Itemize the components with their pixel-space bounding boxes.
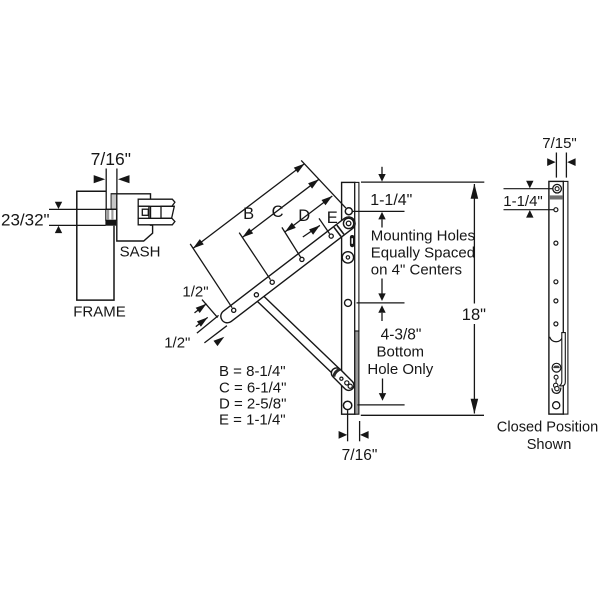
closed mounting holes bbox=[554, 208, 558, 212]
4-3/8 arrow down bbox=[382, 379, 384, 394]
svg-text:on 4" Centers: on 4" Centers bbox=[371, 261, 462, 278]
bottom 7/16 arrow right-pointing bbox=[339, 431, 348, 439]
keeper square hole bbox=[142, 209, 148, 215]
svg-text:D = 2-5/8": D = 2-5/8" bbox=[219, 396, 286, 413]
svg-text:C: C bbox=[272, 203, 284, 221]
keeper wall bbox=[138, 206, 149, 218]
closed top rivet bbox=[553, 184, 562, 193]
track bottom extension line bbox=[361, 414, 484, 416]
shoe rivet mid bbox=[345, 381, 349, 385]
shoe at track bottom bbox=[337, 373, 349, 385]
svg-text:7/15": 7/15" bbox=[542, 135, 577, 152]
svg-text:Bottom: Bottom bbox=[377, 344, 425, 361]
closed shoe cap arc bbox=[552, 388, 561, 394]
7/16 arrow left bbox=[94, 175, 106, 183]
18in dimension line bbox=[473, 184, 475, 304]
23/32 arrow down bbox=[55, 202, 62, 209]
half inch dim 1 extension (arm end) bbox=[202, 300, 218, 318]
dimension E extension line bbox=[319, 218, 330, 233]
closed position flange bbox=[563, 181, 568, 414]
dimension C extension line bbox=[239, 233, 270, 280]
track bottom hole bbox=[343, 401, 351, 409]
dimension B extension line bbox=[190, 244, 232, 308]
top hole extension right bbox=[353, 210, 405, 212]
svg-text:Mounting Holes: Mounting Holes bbox=[371, 227, 475, 244]
track bar (open view) bbox=[342, 182, 355, 414]
svg-text:B = 8-1/4": B = 8-1/4" bbox=[219, 363, 286, 380]
track top extension line bbox=[361, 181, 484, 183]
23/32 arrow up bbox=[55, 226, 62, 233]
dimension line C bbox=[242, 179, 319, 237]
track flange white upper bbox=[355, 182, 359, 331]
half inch line L1 bbox=[197, 315, 219, 333]
svg-text:Hole Only: Hole Only bbox=[367, 361, 433, 378]
shoe rivet small bbox=[340, 377, 343, 380]
svg-text:7/16": 7/16" bbox=[91, 149, 131, 169]
sash lip divider bbox=[116, 194, 118, 209]
svg-text:Equally Spaced: Equally Spaced bbox=[371, 245, 475, 262]
svg-text:Closed Position: Closed Position bbox=[497, 420, 598, 436]
track mounting hole 2 bbox=[345, 299, 352, 306]
closed shoe small circles bbox=[554, 375, 558, 379]
closed 1-1/4 arrows bbox=[526, 181, 533, 189]
svg-text:FRAME: FRAME bbox=[73, 303, 126, 320]
svg-text:1/2": 1/2" bbox=[182, 283, 208, 300]
mounting hole 2 extension right bbox=[357, 302, 405, 304]
svg-text:B: B bbox=[243, 205, 254, 223]
pocket gray bar 1 bbox=[107, 209, 109, 220]
23/32 upper extension line bbox=[49, 208, 116, 210]
dimension D extension line bbox=[282, 227, 301, 257]
svg-text:SASH: SASH bbox=[120, 243, 161, 260]
shoe dark crescent bbox=[334, 369, 340, 376]
closed 1-1/4 extension lines bbox=[504, 188, 553, 190]
closed position bar bbox=[549, 181, 564, 414]
closed folded arm bbox=[559, 333, 565, 386]
half inch arrow A bbox=[195, 304, 207, 313]
closed gray band bbox=[550, 195, 563, 199]
svg-text:1-1/4": 1-1/4" bbox=[503, 193, 543, 210]
dimension arrow E bbox=[303, 225, 320, 237]
1-1/4 arrow up bbox=[381, 219, 383, 227]
track top mounting hole bbox=[345, 208, 352, 215]
dimension line D bbox=[285, 196, 332, 232]
arm tick mark 2 bbox=[334, 227, 341, 236]
track slot bbox=[350, 235, 355, 247]
half inch line L2 bbox=[204, 326, 227, 343]
keeper bottom bar bbox=[138, 218, 175, 225]
pocket gray bar 2 bbox=[111, 209, 113, 220]
main arm bbox=[227, 223, 348, 316]
closed arc notch bbox=[550, 337, 563, 342]
svg-text:4-3/8": 4-3/8" bbox=[381, 326, 422, 343]
bottom 7/16 arrow left-pointing bbox=[360, 431, 369, 439]
arm pivot boss bbox=[343, 218, 353, 228]
svg-text:23/32": 23/32" bbox=[1, 211, 50, 230]
bottom 7/16 extension right bbox=[359, 421, 361, 441]
svg-text:E = 1-1/4": E = 1-1/4" bbox=[219, 412, 286, 429]
closed 7/15 arrows bbox=[547, 158, 555, 166]
arm hole 2 bbox=[254, 293, 258, 297]
track roller bbox=[342, 252, 353, 263]
closed bottom hole bbox=[553, 402, 560, 409]
shoe rivet end bbox=[348, 384, 352, 388]
svg-text:7/16": 7/16" bbox=[342, 447, 378, 464]
svg-text:1/2": 1/2" bbox=[164, 334, 190, 351]
arm hole 5 bbox=[329, 234, 333, 238]
closed 7/15 extension lines bbox=[555, 153, 557, 178]
7/16 extension line right / sash face bbox=[116, 169, 118, 194]
half inch arrow C bbox=[214, 337, 225, 346]
sash profile body bbox=[111, 194, 152, 241]
half inch arrow B bbox=[196, 317, 208, 326]
bottom hole extension right bbox=[357, 404, 404, 406]
svg-text:Shown: Shown bbox=[527, 437, 572, 453]
arm cap hole bbox=[232, 308, 236, 312]
sash lip gray infill bbox=[112, 194, 117, 208]
svg-text:D: D bbox=[298, 207, 310, 225]
23/32 lower extension line bbox=[49, 224, 106, 226]
top hole extension line bbox=[301, 160, 346, 208]
svg-text:18": 18" bbox=[462, 306, 486, 324]
7/16 arrow right bbox=[118, 175, 130, 183]
arm pivot rivet bbox=[346, 221, 351, 226]
closed shoe ellipse bbox=[552, 363, 561, 372]
svg-text:1-1/4": 1-1/4" bbox=[370, 192, 412, 209]
bottom 7/16 extension left bbox=[347, 410, 349, 441]
arm tick mark 1 bbox=[337, 225, 344, 234]
keeper block bbox=[161, 206, 174, 218]
track flange gray lower bbox=[355, 331, 359, 414]
dimension line B bbox=[193, 164, 305, 249]
4in spacing arrow down bbox=[381, 279, 383, 294]
1-1/4 arrow down bbox=[381, 167, 383, 175]
frame profile (section view) bbox=[78, 192, 114, 300]
hinge pocket bbox=[106, 209, 117, 220]
svg-text:E: E bbox=[327, 209, 338, 227]
arm hole 4 bbox=[300, 257, 304, 261]
svg-text:C = 6-1/4": C = 6-1/4" bbox=[219, 379, 286, 396]
arm hole 3 bbox=[270, 280, 274, 284]
keeper top bar bbox=[138, 199, 175, 206]
4-3/8 arrow up bbox=[381, 313, 383, 321]
7/16 extension line left bbox=[105, 169, 107, 210]
hinge black block bbox=[105, 220, 116, 226]
support arm bbox=[257, 295, 342, 376]
